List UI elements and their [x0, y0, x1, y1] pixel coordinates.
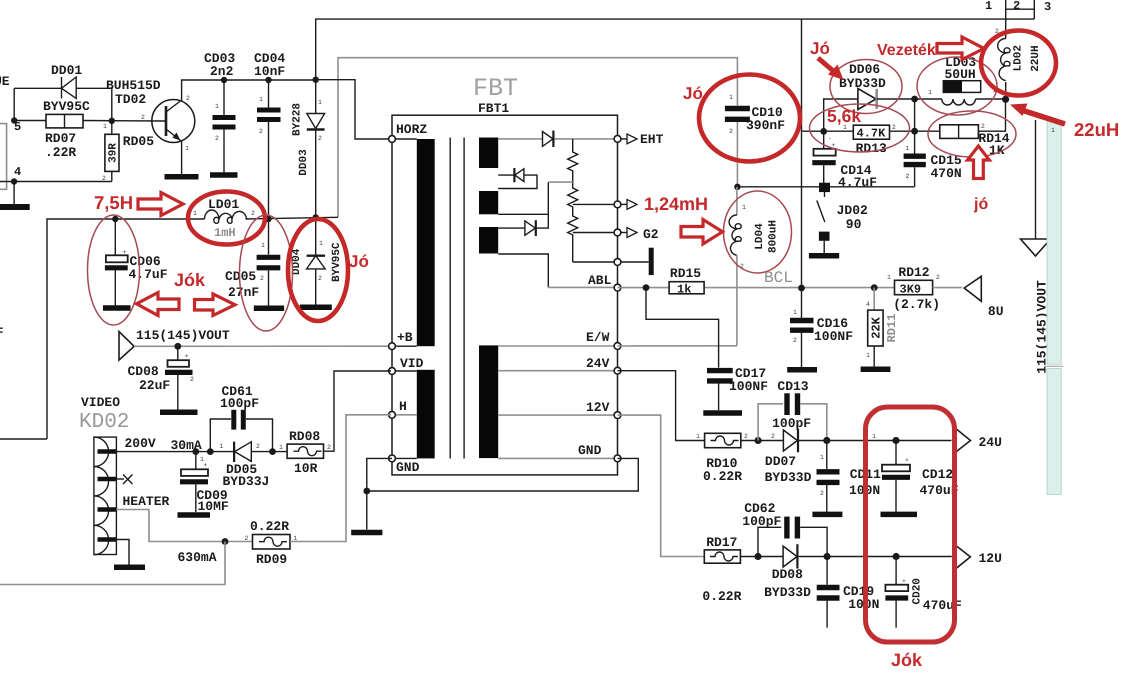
svg-text:DD07: DD07 [765, 454, 796, 469]
wire 200V row [116, 451, 234, 453]
svg-text:nF: nF [0, 325, 4, 340]
svg-text:1: 1 [261, 242, 265, 249]
svg-text:22UH: 22UH [1030, 45, 1042, 71]
svg-text:2: 2 [190, 376, 194, 383]
svg-text:1: 1 [742, 204, 746, 211]
svg-text:H: H [399, 399, 407, 414]
svg-text:1: 1 [729, 94, 733, 101]
svg-text:39R: 39R [108, 143, 120, 163]
svg-text:VIDEO: VIDEO [81, 395, 120, 410]
svg-text:2: 2 [892, 124, 896, 131]
svg-text:4: 4 [866, 301, 870, 308]
svg-text:GND: GND [578, 443, 602, 458]
wire E/W to LD04 [618, 345, 737, 347]
inductor LD02 22UH [998, 31, 1042, 99]
capacitor CD20 470uF electrolytic [885, 557, 962, 628]
jumper JD02 90 [809, 183, 868, 256]
capacitor CD04 10nF [254, 51, 285, 219]
wire vertical bus x=801.5 from top to BCL [801, 19, 803, 288]
annotation red circle CD10 [699, 75, 800, 162]
wire pin5 to RD07 [14, 120, 46, 122]
svg-text:+: + [905, 457, 909, 464]
svg-text:jó: jó [973, 196, 988, 213]
svg-text:BYD33J: BYD33J [223, 474, 270, 489]
svg-text:4.7uF: 4.7uF [129, 267, 168, 282]
node LD01/CD06 junction [112, 216, 118, 222]
svg-text:LD02: LD02 [1012, 45, 1024, 71]
svg-text:12V: 12V [586, 400, 610, 415]
svg-text:2: 2 [820, 490, 824, 497]
svg-text:1: 1 [928, 89, 932, 96]
resistor RD08 10R [279, 429, 331, 476]
svg-text:DD08: DD08 [772, 567, 803, 582]
capacitor CD13 100pF [758, 379, 827, 441]
wire 12V tap [498, 414, 617, 416]
svg-text:2: 2 [327, 444, 331, 451]
resistor RD11 22K [861, 288, 899, 370]
wire tap pin2 [573, 203, 618, 205]
wire top net from DD03 to top-right connector [316, 19, 1035, 80]
svg-text:1: 1 [887, 274, 891, 281]
svg-text:27nF: 27nF [228, 285, 259, 300]
wire ABL/BCL row [618, 287, 670, 289]
FBT secondary lower winding bar [479, 345, 498, 458]
node LD01/DD04 junction [313, 214, 319, 220]
svg-text:0.22R: 0.22R [250, 519, 289, 534]
svg-text:Jók: Jók [174, 270, 206, 290]
wire 12V pin to RD17 [618, 415, 705, 556]
wire 24V pin to RD10 [618, 371, 705, 441]
diode internal D2 [498, 168, 537, 189]
wire H pin to winding [392, 414, 417, 416]
svg-text:RD05: RD05 [123, 134, 154, 149]
resistor RD13 4.7K [802, 99, 915, 156]
svg-text:1: 1 [820, 454, 824, 461]
svg-text:1: 1 [185, 145, 189, 152]
node DD06/LD03 junction [911, 96, 918, 103]
capacitor CD11 100N [812, 441, 881, 515]
resistor RD05 39R [102, 121, 154, 183]
svg-text:Jó: Jó [683, 84, 703, 103]
diode DD01 [43, 63, 90, 114]
svg-text:2: 2 [245, 535, 249, 542]
svg-text:1mH: 1mH [214, 226, 236, 240]
svg-text:FBT1: FBT1 [478, 101, 509, 116]
svg-text:UE: UE [0, 74, 10, 89]
svg-text:RD11: RD11 [885, 314, 899, 343]
wire GND-R tap [498, 457, 617, 459]
svg-text:RD15: RD15 [670, 266, 701, 281]
svg-text:1: 1 [872, 433, 876, 440]
capacitor CD62 100pF [742, 501, 827, 557]
svg-text:4: 4 [14, 165, 21, 179]
resistor RD10 0.22R [696, 433, 748, 484]
svg-text:BUH515D: BUH515D [106, 78, 161, 93]
node 12V port [954, 544, 1002, 569]
capacitor CD03 2n2 [204, 51, 238, 175]
annotation red ellipse RD13 [810, 104, 910, 152]
svg-text:2: 2 [260, 275, 264, 282]
svg-text:1: 1 [103, 123, 107, 130]
annotation red ellipse LD03 [917, 57, 997, 115]
svg-text:2: 2 [906, 173, 910, 180]
annotation red ellipse CD06 [88, 215, 140, 325]
svg-text:ABL: ABL [588, 273, 612, 288]
svg-text:0.22R: 0.22R [703, 469, 742, 484]
wire EHT internal [498, 138, 542, 140]
wire VOUT row to +B [134, 345, 391, 347]
svg-text:+: + [204, 462, 208, 469]
svg-text:7,5H: 7,5H [94, 192, 133, 213]
inductor LD03 50UH [915, 55, 1006, 105]
svg-text:RD12: RD12 [898, 265, 929, 280]
wire E/W tap [498, 345, 617, 347]
svg-text:RD08: RD08 [289, 429, 320, 444]
svg-text:1: 1 [193, 210, 197, 217]
inductor LD04 800uH [729, 187, 779, 346]
svg-text:GND: GND [396, 460, 420, 475]
ground FBT [351, 530, 382, 536]
resistor RD17 0.22R [702, 535, 741, 604]
svg-text:100NF: 100NF [729, 379, 768, 394]
svg-text:1: 1 [220, 443, 224, 450]
wire tap G2 [573, 232, 618, 234]
node EHT arrow [621, 132, 664, 147]
svg-text:2: 2 [256, 443, 260, 450]
resistor RD15 1k [669, 266, 704, 297]
svg-text:BYD33D: BYD33D [764, 585, 811, 600]
svg-text:90: 90 [846, 217, 862, 232]
annotation arrow jo up [968, 146, 990, 179]
svg-text:LD04: LD04 [754, 223, 766, 250]
svg-text:5,6k: 5,6k [827, 106, 861, 126]
svg-text:10nF: 10nF [254, 64, 285, 79]
node pin2 arrow [621, 200, 637, 210]
svg-text:CD05: CD05 [225, 269, 256, 284]
diode internal D3 [498, 182, 573, 236]
node LD01/CD04 junction [265, 216, 271, 222]
wire FBT GND net [367, 458, 639, 491]
wire RD05 bottom to pin4 [0, 181, 112, 183]
wire RD10 out [741, 440, 784, 442]
annotation red circle LD02 [981, 31, 1056, 96]
wire DD03 junction to HORZ pin [316, 80, 391, 139]
svg-text:(2.7k): (2.7k) [893, 297, 940, 312]
svg-text:1: 1 [906, 145, 910, 152]
svg-text:HEATER: HEATER [123, 494, 170, 509]
svg-text:2: 2 [793, 337, 797, 344]
capacitor CD10 390nF [725, 94, 785, 187]
annotation arrow 7,5H [138, 193, 183, 216]
svg-text:Jó: Jó [349, 252, 369, 271]
annotation red circle LD01 [188, 192, 265, 245]
annotation red ellipse CD05 [240, 215, 293, 331]
svg-text:CD08: CD08 [128, 364, 159, 379]
svg-text:.22R: .22R [45, 145, 76, 160]
diode DD08 BYD33D [764, 544, 952, 600]
svg-text:CD12: CD12 [922, 467, 953, 482]
FBT primary winding bar lower [417, 370, 435, 459]
svg-text:-: - [828, 135, 832, 142]
FBT pin circles right [614, 136, 621, 143]
svg-text:3K9: 3K9 [900, 283, 922, 297]
wire UE to DD01 and down to pin5 [14, 87, 61, 89]
node 8V port [964, 276, 1003, 319]
svg-text:Jók: Jók [891, 650, 923, 670]
annotation red ellipse RD14 [928, 111, 1016, 157]
capacitor CD19 100N [817, 557, 880, 628]
tube KD02 CRT heater symbol [94, 437, 133, 555]
svg-text:115(145)VOUT: 115(145)VOUT [136, 328, 230, 343]
capacitor CD08 22uF electrolytic [128, 346, 198, 412]
svg-text:1: 1 [866, 352, 870, 359]
svg-text:Vezeték: Vezeték [877, 42, 936, 59]
capacitor CD06 4.7uF electrolytic [103, 219, 168, 308]
wire RD17 out [740, 556, 783, 558]
svg-text:RD09: RD09 [256, 552, 287, 567]
svg-text:+: + [902, 578, 906, 585]
svg-text:1: 1 [985, 0, 992, 13]
svg-text:1: 1 [793, 309, 797, 316]
svg-text:BYV95C: BYV95C [43, 99, 90, 114]
svg-text:100pF: 100pF [772, 416, 811, 431]
svg-text:1: 1 [318, 99, 322, 106]
svg-text:2: 2 [186, 95, 190, 102]
wire GND-L pin to winding [392, 457, 417, 459]
svg-text:BYD33D: BYD33D [765, 470, 812, 485]
svg-text:22uH: 22uH [1074, 119, 1119, 140]
svg-text:22uF: 22uF [139, 378, 170, 393]
resistor RD12 3K9 [887, 265, 962, 312]
diode DD06 BYD33D [823, 62, 915, 110]
FBT core lines [449, 138, 451, 459]
svg-text:1k: 1k [677, 283, 691, 297]
svg-text:630mA: 630mA [178, 550, 217, 565]
svg-text:2: 2 [936, 274, 940, 281]
node CD10/LD04 junction [734, 184, 740, 190]
capacitor CD17 100NF [703, 366, 768, 413]
svg-text:1: 1 [696, 433, 700, 440]
wire heater pin4 to ground [116, 540, 129, 565]
connector box left edge [0, 120, 21, 189]
wire +B pin to winding [392, 345, 417, 347]
annotation red circle DD04 [288, 219, 348, 321]
wire from LD01 right end up and across (to CD10) [338, 58, 737, 217]
diode DD05 BYD33J [220, 442, 288, 489]
cyan sidebar [1045, 121, 1064, 494]
annotation red rounded rect outputs [866, 407, 955, 642]
svg-text:+B: +B [397, 330, 413, 345]
resistor RD07 .22R [45, 114, 83, 160]
svg-text:2: 2 [318, 135, 322, 142]
transistor TD02 BUH515D [106, 78, 195, 152]
svg-text:2: 2 [251, 210, 255, 217]
node RD13/CD15 junction [911, 128, 918, 135]
ground transistor [165, 174, 199, 180]
node RD11 junction [871, 284, 878, 291]
wire BCL junction to CD17 jog [646, 288, 719, 368]
svg-text:2n2: 2n2 [210, 64, 234, 79]
svg-text:FBT: FBT [473, 74, 518, 103]
wire RD09 to H pin [290, 415, 391, 542]
resistor chain internal [568, 139, 578, 262]
svg-text:CD20: CD20 [912, 578, 924, 604]
svg-text:470N: 470N [931, 166, 962, 181]
svg-text:RD07: RD07 [45, 131, 76, 146]
svg-text:2: 2 [771, 433, 775, 440]
wire CD10 bottom row to CD15 [737, 186, 914, 188]
svg-text:2: 2 [215, 135, 219, 142]
svg-text:4.7K: 4.7K [857, 127, 887, 141]
annotation arrow Jok left [137, 293, 180, 316]
ground left edge [13, 182, 15, 205]
wire emitter down to ground [181, 141, 182, 175]
annotation red ellipse LD04 [724, 191, 792, 273]
svg-text:2: 2 [318, 275, 322, 282]
svg-text:G2: G2 [643, 227, 659, 242]
wire winding2 bottom [498, 213, 548, 215]
svg-text:12U: 12U [979, 551, 1002, 566]
inductor LD01 1mH [193, 197, 255, 240]
annotation red ellipse DD06 [830, 60, 902, 114]
wire RD08 to VID [324, 371, 392, 451]
svg-text:4.7uF: 4.7uF [838, 175, 877, 190]
node 12V rail junctions [824, 553, 831, 560]
svg-text:E/W: E/W [586, 330, 610, 345]
node 24V rail junctions [823, 437, 830, 444]
annotation arrow Jok right [195, 294, 236, 316]
svg-text:1: 1 [200, 456, 204, 463]
svg-text:+: + [185, 353, 189, 360]
node LD02/RD14 junction [1002, 96, 1009, 103]
resistor RD14 1K [915, 99, 1010, 158]
svg-text:10MF: 10MF [198, 499, 229, 514]
capacitor CD05 27nF [225, 219, 284, 308]
diode internal D1 [543, 131, 554, 148]
svg-text:Jó: Jó [810, 39, 830, 58]
svg-text:1: 1 [215, 103, 219, 110]
svg-text:200V: 200V [125, 436, 156, 451]
svg-text:BYV95C: BYV95C [331, 242, 343, 282]
svg-text:JD02: JD02 [837, 203, 868, 218]
wire winding3 bottom to ABL [498, 254, 548, 287]
svg-text:2: 2 [1013, 0, 1020, 13]
wire collector up to y80 rail [182, 80, 316, 101]
wire VID pin to winding [392, 370, 417, 372]
wire RD07 to base junction [83, 120, 166, 123]
node junction pin5 [11, 117, 17, 123]
svg-text:3: 3 [1044, 0, 1051, 14]
svg-text:24V: 24V [586, 356, 610, 371]
svg-text:BY228: BY228 [292, 103, 304, 136]
svg-text:EHT: EHT [640, 132, 664, 147]
capacitor CD14 4.7uF electrolytic [812, 131, 877, 190]
annotation arrow 22uH diagonal [1010, 104, 1065, 125]
svg-text:1,24mH: 1,24mH [644, 194, 708, 214]
svg-text:2: 2 [259, 128, 263, 135]
transformer FBT1 box [392, 74, 618, 475]
svg-text:0.22R: 0.22R [702, 589, 741, 604]
capacitor CD09 10MF electrolytic [178, 452, 229, 515]
FBT secondary EHT winding bars [479, 138, 498, 169]
node 24V port [955, 428, 1002, 454]
svg-text:RD13: RD13 [856, 141, 887, 156]
capacitor CD15 470N [904, 131, 962, 187]
node pin4 anode-cap bar [621, 248, 651, 275]
wire LD01 row [47, 219, 205, 439]
svg-text:100pF: 100pF [220, 396, 259, 411]
svg-text:BYD33D: BYD33D [839, 76, 886, 91]
wire 24V tap [498, 370, 617, 372]
svg-text:DD01: DD01 [51, 63, 82, 78]
node 115(145)VOUT arrow right [1021, 120, 1051, 374]
wire 630mA down-left [0, 542, 225, 585]
svg-text:24U: 24U [979, 435, 1002, 450]
annotation arrow Jo DD06 diagonal [818, 58, 844, 80]
svg-text:2: 2 [141, 114, 145, 121]
FBT primary winding bar upper [417, 139, 435, 346]
svg-text:390nF: 390nF [746, 118, 785, 133]
svg-text:RD17: RD17 [706, 535, 737, 550]
svg-text:1: 1 [319, 240, 323, 247]
diode DD07 BYD33D [765, 429, 952, 485]
svg-text:1: 1 [279, 444, 283, 451]
svg-text:2: 2 [744, 433, 748, 440]
capacitor CD61 100pF [210, 384, 272, 452]
node 115(145)VOUT port [119, 328, 230, 360]
wire tap pin4 [573, 261, 618, 263]
svg-text:800uH: 800uH [768, 220, 780, 253]
svg-text:10R: 10R [294, 461, 318, 476]
connector box top right [985, 0, 1051, 35]
svg-text:TD02: TD02 [115, 92, 146, 107]
svg-text:CD13: CD13 [777, 379, 808, 394]
svg-text:100pF: 100pF [742, 514, 781, 529]
node BCL junction on bus [798, 285, 805, 292]
wire HORZ pin to winding [392, 138, 417, 140]
svg-text:22K: 22K [869, 316, 883, 338]
svg-text:2: 2 [981, 123, 985, 130]
node G2 arrow [621, 227, 659, 242]
svg-text:KD02: KD02 [79, 411, 129, 434]
svg-text:2: 2 [729, 128, 733, 135]
svg-text:VID: VID [400, 356, 424, 371]
diode DD03 BY228 [292, 77, 325, 218]
svg-text:1: 1 [259, 96, 263, 103]
svg-text:HORZ: HORZ [396, 122, 427, 137]
svg-text:LD01: LD01 [208, 197, 239, 212]
svg-text:1: 1 [1051, 127, 1055, 134]
svg-text:100NF: 100NF [814, 329, 853, 344]
svg-text:8U: 8U [988, 304, 1004, 319]
FBT pin circles left [389, 136, 396, 143]
annotation arrow Vezetek [937, 37, 984, 60]
resistor RD09 0.22R [245, 519, 298, 567]
svg-text:+: + [123, 249, 127, 256]
capacitor CD12 470uF electrolytic [881, 441, 959, 515]
svg-text:DD03: DD03 [298, 149, 310, 176]
annotation arrow 1,24mH [681, 220, 723, 245]
svg-text:50UH: 50UH [945, 67, 976, 82]
capacitor CD16 100NF [787, 288, 853, 370]
svg-text:DD06: DD06 [849, 62, 880, 77]
diode DD04 BYV95C [291, 217, 343, 307]
